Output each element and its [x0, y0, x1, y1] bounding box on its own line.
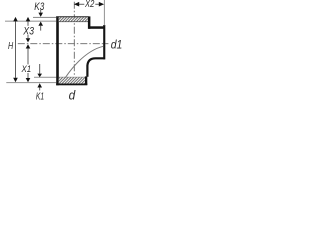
svg-text:X2: X2 — [84, 0, 95, 10]
label X1 — [20, 64, 32, 75]
top insertion-depth line — [5, 20, 56, 23]
inner sweep curve of branch — [65, 46, 103, 78]
fitting body: top edge — [56, 16, 88, 17]
bottom reference line — [6, 81, 56, 84]
label X2 — [84, 0, 95, 10]
svg-text:H: H — [8, 41, 14, 52]
fitting body: bottom edge — [56, 83, 87, 85]
dimension X3 / X1 shared line — [26, 17, 31, 82]
bottom spigot wall hatch — [59, 78, 85, 84]
label K3 — [34, 1, 45, 13]
horizontal centerline of branch — [18, 43, 109, 45]
X2 right extension line — [103, 0, 106, 25]
dimension H — [13, 17, 18, 82]
fitting body: left wall — [56, 16, 59, 85]
label H — [8, 41, 14, 52]
label X3 — [22, 25, 34, 37]
branch top edge — [89, 26, 105, 29]
label d — [69, 88, 76, 103]
dimension K1 — [37, 64, 42, 90]
branch bottom outline with rounded corner — [87, 58, 104, 77]
top edge extension line — [33, 17, 56, 18]
label K1 — [36, 91, 44, 103]
svg-text:X3: X3 — [22, 25, 34, 37]
svg-text:X1: X1 — [21, 64, 32, 75]
spigot right wall — [85, 76, 87, 85]
branch socket end face — [103, 25, 105, 59]
svg-text:d: d — [69, 88, 76, 102]
vertical centerline of main pipe — [73, 2, 75, 77]
svg-text:K3: K3 — [34, 1, 45, 13]
fitting body: top socket wall hatch — [59, 17, 88, 22]
svg-text:d1: d1 — [111, 37, 123, 51]
label d1 — [111, 37, 123, 51]
dimension K3 — [38, 10, 43, 31]
svg-text:K1: K1 — [36, 91, 44, 103]
bottom insertion-depth line — [34, 76, 85, 79]
fitting body: right upper wall — [88, 16, 91, 28]
dimension X2 — [74, 0, 104, 8]
